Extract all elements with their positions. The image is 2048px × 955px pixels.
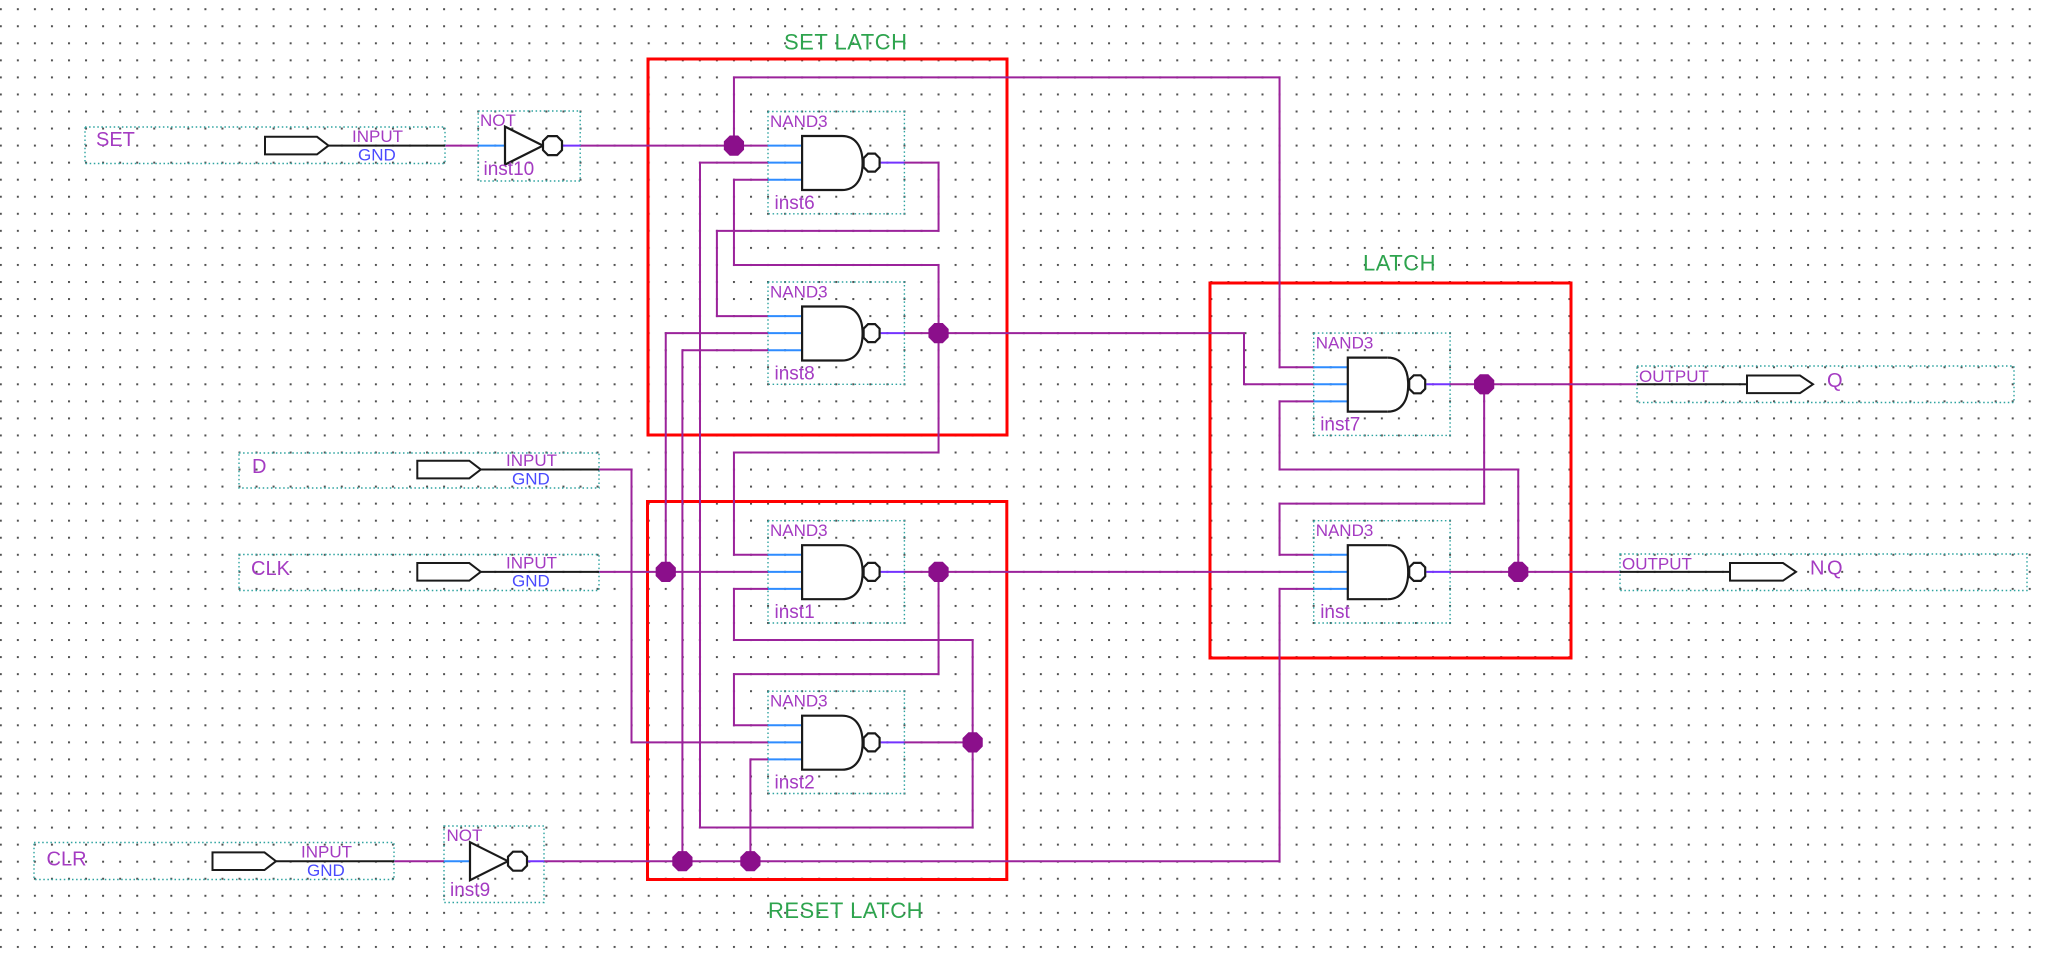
wire net NCLR branch to inst8.C <box>682 350 768 861</box>
svg-text:NAND3: NAND3 <box>770 283 828 302</box>
wire net inst6.out to inst8.A <box>717 163 939 316</box>
wire net CLK to inst1.B (through junction) <box>599 571 768 573</box>
svg-text:NAND3: NAND3 <box>1316 334 1374 353</box>
junction node NQ feedback <box>1508 562 1528 582</box>
output pin NQ <box>1620 554 2027 591</box>
svg-text:NAND3: NAND3 <box>770 692 828 711</box>
wire net inst1.out branch to inst2.A <box>734 572 939 725</box>
svg-text:NQ: NQ <box>1810 558 1845 580</box>
wire net inst1.out to inst.B (through junction) <box>904 571 1313 573</box>
wire net NSET: NOT inst10 out to inst6.A (through junction) <box>580 145 768 147</box>
svg-text:GND: GND <box>307 861 345 880</box>
input pin CLR <box>34 843 394 881</box>
wire net CLR pin to NOT inst9 <box>394 860 444 862</box>
NAND3 gate inst8 <box>768 282 904 384</box>
wire net inst2.out branch to inst1.C <box>734 589 973 742</box>
svg-text:INPUT: INPUT <box>301 843 352 862</box>
input pin CLK <box>239 553 599 590</box>
svg-text:inst1: inst1 <box>775 602 815 623</box>
svg-text:NAND3: NAND3 <box>770 521 828 540</box>
svg-text:RESET LATCH: RESET LATCH <box>768 898 923 923</box>
wire net NSET branch to inst7.A <box>734 77 1314 367</box>
svg-text:NOT: NOT <box>480 111 516 130</box>
svg-text:GND: GND <box>358 145 396 164</box>
wire net Q: inst7.out to OUTPUT Q <box>1450 383 1637 385</box>
svg-text:inst9: inst9 <box>450 880 490 901</box>
output pin Q <box>1637 366 2014 403</box>
svg-text:inst8: inst8 <box>775 363 815 384</box>
wire net NCLR branch to inst2.C <box>750 759 768 861</box>
junction node NSET at inst6.A <box>724 136 744 156</box>
svg-text:inst7: inst7 <box>1320 414 1360 435</box>
NAND3 gate inst6 <box>768 112 904 214</box>
wire net Q branch to inst.A <box>1280 384 1485 555</box>
junction node NCLR at inst8.C tap <box>672 851 692 871</box>
junction node on inst2 output <box>963 732 983 752</box>
NAND3 gate inst2 <box>768 691 904 793</box>
wire net D to inst2.B <box>599 470 768 743</box>
svg-text:OUTPUT: OUTPUT <box>1639 367 1709 386</box>
svg-text:SET LATCH: SET LATCH <box>784 30 908 55</box>
svg-text:NAND3: NAND3 <box>770 112 828 131</box>
svg-text:CLR: CLR <box>47 848 87 870</box>
wire net inst8.out branch to inst6.C <box>734 180 939 333</box>
junction node CLK at inst8.B tap <box>656 562 676 582</box>
NOT gate inst10 <box>478 111 580 181</box>
wire net NQ branch to inst7.C <box>1280 401 1519 571</box>
svg-text:inst2: inst2 <box>775 773 815 794</box>
svg-text:inst10: inst10 <box>484 159 535 180</box>
svg-text:GND: GND <box>512 572 550 591</box>
group box SET LATCH <box>648 59 1007 435</box>
wire net NCLR: NOT inst9 out to inst.C <box>544 589 1314 861</box>
wire net CLK branch to inst8.B <box>666 333 768 572</box>
group box RESET LATCH <box>648 502 1007 880</box>
input pin SET <box>85 127 445 164</box>
svg-text:NOT: NOT <box>447 826 483 845</box>
junction node NCLR at inst2.C tap <box>740 851 760 871</box>
svg-text:OUTPUT: OUTPUT <box>1622 555 1692 574</box>
NOT gate inst9 <box>444 826 544 903</box>
wire net NQ: inst.out to OUTPUT NQ <box>1450 571 1620 573</box>
svg-text:inst6: inst6 <box>775 193 815 214</box>
junction node on inst1 output <box>928 562 948 582</box>
svg-text:LATCH: LATCH <box>1363 251 1436 276</box>
svg-text:NAND3: NAND3 <box>1316 521 1374 540</box>
NAND3 gate inst <box>1314 521 1450 623</box>
group box LATCH <box>1210 283 1571 658</box>
wire net inst8.out to inst7.B <box>904 333 1313 384</box>
input pin D <box>239 451 599 488</box>
junction node Q feedback <box>1474 374 1494 394</box>
wire net inst2.out to junction <box>904 741 972 743</box>
svg-text:INPUT: INPUT <box>506 553 557 572</box>
svg-text:INPUT: INPUT <box>506 451 557 470</box>
wire net inst8.out branch to inst1.A <box>734 333 939 555</box>
svg-text:GND: GND <box>512 469 550 488</box>
junction node on inst8 output <box>928 323 948 343</box>
svg-text:SET: SET <box>96 129 135 151</box>
svg-text:Q: Q <box>1827 370 1843 392</box>
svg-text:INPUT: INPUT <box>352 127 403 146</box>
wire net SET pin to NOT inst10 <box>445 145 478 147</box>
NAND3 gate inst1 <box>768 521 904 623</box>
wire net inst2.out branch to inst6.B <box>700 163 973 828</box>
svg-text:D: D <box>252 456 266 478</box>
svg-text:CLK: CLK <box>251 558 291 580</box>
svg-text:inst: inst <box>1320 602 1350 623</box>
NAND3 gate inst7 <box>1314 333 1450 435</box>
